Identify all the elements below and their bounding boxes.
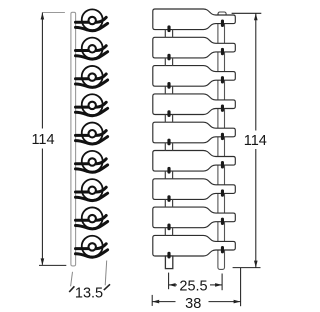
left rail (side view) xyxy=(71,12,76,266)
dimension 38: dimension line xyxy=(152,301,240,303)
svg-text:38: 38 xyxy=(185,296,201,312)
clamp 5 xyxy=(76,123,108,144)
clamp 2 xyxy=(76,38,108,59)
dimension 114 left: dimension line xyxy=(41,13,43,265)
dimension 38: arrows xyxy=(152,300,159,304)
svg-text:114: 114 xyxy=(244,133,267,149)
dimension 114 right: bottom extension line xyxy=(233,267,261,269)
bracket between bottle 3 and 4 xyxy=(165,86,172,94)
dimension 114 left: top extension line xyxy=(42,12,65,14)
clamp 1 xyxy=(76,9,108,30)
bottle 6 xyxy=(153,151,236,172)
right rail top cap xyxy=(218,12,226,16)
bracket between bottle 6 and 7 xyxy=(165,171,172,179)
clamp 9 xyxy=(76,236,108,257)
dimension 38: extension lines xyxy=(151,295,153,306)
clamp 3 xyxy=(76,66,108,87)
dimension 13.5: oblique ticks xyxy=(69,286,74,292)
bottle 8 xyxy=(153,207,236,228)
dimension 114 right: top extension line xyxy=(232,12,262,14)
dimension 114 right: dimension line xyxy=(255,13,257,267)
svg-text:13.5: 13.5 xyxy=(75,286,103,302)
bottle 1 xyxy=(153,9,236,30)
bracket between bottle 5 and 6 xyxy=(165,143,172,151)
dimension 114 left: arrows xyxy=(41,13,45,20)
bracket between bottle 7 and 8 xyxy=(165,199,172,207)
dimension 13.5: extension lines xyxy=(71,272,73,287)
dimension 114 right: arrows xyxy=(254,13,258,20)
bottle 2 xyxy=(153,37,236,58)
bottle 5 xyxy=(153,122,236,143)
dimension 25.5: extension lines xyxy=(168,273,170,290)
bottle 3 xyxy=(153,66,236,87)
clamp 8 xyxy=(76,207,108,228)
bracket between bottle 8 and 9 xyxy=(165,228,172,236)
right rail (front view) xyxy=(218,12,225,269)
dimension 114 left: bottom extension line xyxy=(39,264,66,266)
clamp 6 xyxy=(76,151,108,172)
svg-text:25.5: 25.5 xyxy=(179,279,207,295)
bracket between bottle 1 and 2 xyxy=(165,30,172,38)
bottle 4 xyxy=(153,94,236,115)
clamp 7 xyxy=(76,179,108,200)
foot bracket below bottle 9 xyxy=(165,256,172,269)
svg-text:114: 114 xyxy=(31,132,54,148)
dimension 25.5: arrows xyxy=(169,283,176,287)
bottle 9 xyxy=(153,235,236,256)
dimension 25.5: dimension line xyxy=(169,284,223,286)
body clip pins xyxy=(167,25,170,258)
clamp 4 xyxy=(76,94,108,115)
bracket between bottle 2 and 3 xyxy=(165,58,172,66)
neck clip pins (on right rail) xyxy=(221,20,224,254)
bracket between bottle 4 and 5 xyxy=(165,115,172,123)
bottle 7 xyxy=(153,179,236,200)
